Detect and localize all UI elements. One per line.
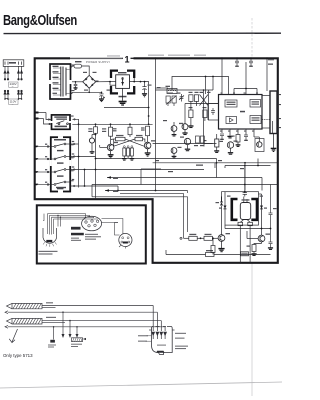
- switch S2 left terminal: [35, 158, 53, 160]
- SK1 label bar: [9, 62, 16, 64]
- transistor TR2: [144, 142, 151, 149]
- motor diode D9: [259, 194, 264, 229]
- wire to amp base: [105, 189, 188, 192]
- resistor R10: [203, 107, 208, 118]
- main schematic border: [35, 58, 278, 262]
- capacitor C8 top border: [235, 58, 239, 66]
- TR5 emitter ground: [218, 241, 224, 251]
- motor coil M1: [240, 197, 250, 220]
- nested feedback wires: [92, 191, 188, 239]
- switch S3 right wire long: [70, 169, 204, 171]
- U2 pin stubs bottom: [222, 129, 254, 137]
- regulator inner box: [116, 72, 130, 88]
- label 240V: [9, 82, 18, 89]
- U2 block OSC: [225, 100, 237, 107]
- U2 block AMP: [250, 100, 261, 108]
- U2 left pin wires: [208, 104, 219, 121]
- motor outer wire: [225, 192, 271, 229]
- junction dots supply: [103, 81, 149, 109]
- transistor TR6: [258, 235, 265, 242]
- cable 2 tip: [7, 318, 13, 323]
- ground U2 pin2: [227, 136, 232, 138]
- capacitor C13 right: [269, 185, 277, 229]
- label TR2: [151, 140, 156, 141]
- wire regulator input: [110, 82, 116, 86]
- resistor R17: [211, 237, 215, 254]
- faint heading above border: [148, 55, 206, 56]
- section marker 1: [113, 54, 140, 65]
- plug inner label: [157, 345, 166, 346]
- contact circle amp input: [180, 237, 182, 239]
- wires FM mid: [185, 101, 219, 124]
- switch S1 value label: [57, 150, 64, 151]
- switch S2 right wire to bus B: [70, 156, 95, 158]
- resistor R9: [189, 107, 194, 118]
- label tape bar 1: [71, 227, 81, 230]
- switch S2: [52, 156, 70, 160]
- connector P1: [270, 91, 277, 134]
- power switch box SW1: [52, 115, 71, 129]
- R1 value labels: [102, 128, 118, 192]
- wire R1 to TR1: [110, 136, 112, 144]
- earth drop wires: [53, 311, 78, 339]
- coupling capacitor C5: [89, 135, 95, 154]
- cross wires FM mixer: [200, 77, 214, 106]
- capacitor C9 top border: [249, 58, 253, 66]
- motor bottom wires: [240, 226, 250, 263]
- DIN plug rear view: [119, 233, 132, 246]
- resistor R14 on bus B: [94, 127, 98, 134]
- label TR5: [226, 233, 231, 234]
- wire regulator rail down: [148, 108, 150, 125]
- main switch box SW2: [51, 137, 70, 191]
- switch S3 value label: [57, 175, 64, 176]
- svg-text:Only type 5713: Only type 5713: [3, 353, 33, 358]
- capacitor C7: [211, 108, 215, 115]
- label TR3: [179, 123, 183, 124]
- U2 block POWER AMP: [250, 116, 261, 124]
- wire K7a: [153, 162, 278, 166]
- transistor TR3: [182, 124, 188, 130]
- bottom supply rail: [104, 107, 149, 109]
- plug labels left: [138, 335, 152, 342]
- capacitor C10 below U2: [220, 134, 224, 139]
- transformer T1: [50, 64, 71, 99]
- label TR1: [114, 142, 119, 143]
- mains voltage selector block SK1: [3, 60, 24, 67]
- transistor TR4 below U2: [254, 137, 264, 152]
- switch terminal markers: [35, 146, 38, 186]
- switch S3 pin number: [45, 169, 47, 170]
- wire signal left arrow: [107, 176, 262, 179]
- bridge rectifier D1-D4: [83, 75, 96, 88]
- resistor R3 cross-coupling: [116, 135, 126, 141]
- regulator label MC1: [119, 96, 127, 98]
- TR1 emitter ground: [108, 151, 114, 158]
- wire power switch to top rail: [72, 119, 152, 125]
- switch S2 value label: [57, 162, 64, 163]
- IF boxes: [196, 136, 205, 143]
- switch S3 left terminal: [35, 171, 53, 173]
- R14 labels: [88, 128, 92, 132]
- scan edge artifact bottom: [0, 382, 282, 388]
- drop arrowheads: [62, 334, 79, 338]
- solder tag: [48, 340, 56, 348]
- wire FM rail mid: [156, 89, 214, 143]
- label U2: [240, 111, 245, 113]
- faint stamp text: [107, 55, 120, 56]
- vertical bus A: [78, 124, 80, 187]
- tape bar caption: [71, 238, 81, 241]
- U2 block D: [226, 117, 237, 124]
- switch S2 pin number: [45, 156, 47, 157]
- wires power switch left: [39, 113, 52, 125]
- wire left channel signal: [42, 306, 153, 308]
- wire drops right: [215, 162, 262, 191]
- vertical bus A2: [84, 169, 86, 187]
- resistor R12: [214, 134, 219, 152]
- transistor TR2b: [171, 122, 177, 136]
- scan fold line bottom: [251, 263, 253, 396]
- switch S1 pin number: [45, 144, 47, 145]
- switch S4: [52, 181, 70, 185]
- wire lower long: [92, 185, 278, 197]
- label TR6: [266, 234, 271, 235]
- resistor R8: [194, 92, 198, 102]
- TR3 ground: [182, 130, 187, 135]
- pickup plug base bar: [157, 351, 165, 353]
- resistor R15: [184, 234, 198, 241]
- value label C3: [148, 85, 152, 86]
- TR6 wires: [247, 228, 262, 239]
- pickup caption front view: [39, 251, 58, 255]
- value labels bridge: [83, 72, 97, 91]
- border gaps styling: [50, 80, 71, 192]
- switch S1 right wire to bus A: [70, 143, 78, 145]
- plug pin arrows: [152, 306, 167, 340]
- switch S4 right wire: [70, 185, 119, 191]
- wire run 3: [42, 321, 161, 323]
- resistor R16: [197, 234, 218, 241]
- fuse F1: [73, 61, 82, 68]
- wire regulator output: [130, 78, 149, 108]
- motor cap C12: [243, 191, 247, 197]
- terminal arrows on left border: [34, 112, 39, 120]
- selector plug pins row 2: [4, 90, 23, 98]
- wire run 4: [5, 325, 165, 328]
- switch S4 left terminal: [35, 184, 53, 186]
- 5-pole plug caption: [85, 234, 101, 240]
- label shield 2: [46, 317, 56, 318]
- op-amp IC U2: [219, 95, 263, 130]
- wire run 2: [5, 311, 157, 314]
- wires around bridge: [71, 66, 111, 94]
- transistor TR3b: [184, 138, 190, 150]
- svg-text:1: 1: [125, 55, 130, 65]
- svg-text:~: ~: [12, 85, 14, 89]
- speaker cable shield 1: [12, 303, 42, 308]
- label D7: [216, 202, 220, 203]
- wire IF out: [204, 144, 213, 147]
- pickup socket pins: [48, 228, 54, 235]
- wire transformer secondary to fuse: [71, 66, 73, 94]
- resistor R4 cross-coupling: [135, 135, 143, 141]
- capacitor C14 right lower: [268, 228, 273, 250]
- svg-text:~: ~: [12, 102, 14, 106]
- switch S4 pin number: [45, 182, 47, 183]
- TR5 collector to motor: [222, 192, 226, 197]
- motor magnet left: [232, 199, 238, 220]
- vertical bus right section: [155, 58, 157, 144]
- capacitor C3 electrolytic: [142, 82, 147, 97]
- motor supply stubs: [244, 165, 246, 192]
- transistor TR2c: [171, 147, 181, 158]
- DIN plug wires: [102, 219, 126, 249]
- transistor TR5: [218, 235, 225, 242]
- cable 1 tip: [7, 303, 13, 308]
- pickup wiring harness: [43, 214, 98, 228]
- motor magnet right: [251, 199, 257, 220]
- trimmer capacitor C6: [179, 94, 184, 102]
- capacitor C2: [99, 92, 104, 102]
- tape connector hatched box: [71, 338, 86, 347]
- regulator ground: [119, 88, 127, 105]
- header rule: [4, 32, 282, 34]
- wire IC pin feeds: [222, 58, 257, 94]
- ground right of connector: [271, 134, 277, 152]
- label K7a: [204, 140, 207, 141]
- TR2 emitter ground: [145, 149, 151, 156]
- chassis ground arrow: [9, 329, 17, 343]
- switch S4 value label: [57, 188, 64, 189]
- coil L1: [167, 89, 177, 94]
- wire stub y169: [141, 169, 161, 185]
- junction dots top border: [221, 57, 252, 59]
- regulator IC1 outer bracket: [111, 71, 134, 94]
- wires U2 to connector: [262, 58, 270, 128]
- resistor R18 TR6 emitter: [251, 242, 261, 256]
- coil L2 boxes: [166, 93, 177, 107]
- top border thin segment: [70, 57, 123, 59]
- U2 pin numbers: [220, 93, 258, 132]
- resistor R21 bottom: [166, 250, 271, 257]
- logo Bang&Olufsen: [3, 11, 77, 28]
- label tape bar 2: [71, 233, 84, 236]
- svg-text:POWER SUPPLY: POWER SUPPLY: [86, 60, 110, 64]
- scan fold line top: [251, 18, 253, 57]
- wire bus K7 long: [95, 158, 217, 160]
- transformer winding taps: [53, 68, 70, 95]
- pickup arm socket: [43, 228, 57, 247]
- resistor R13 mid: [128, 123, 132, 137]
- plug labels right: [175, 333, 188, 349]
- svg-text:Bang&Olufsen: Bang&Olufsen: [3, 11, 77, 28]
- cross coupling wires: [111, 139, 145, 146]
- label 110V: [5, 99, 22, 107]
- capacitor C1: [74, 84, 78, 89]
- resistor R11 below U2: [231, 135, 240, 147]
- switch S1: [52, 143, 70, 147]
- resistor R7: [189, 92, 194, 102]
- transistor TR1: [107, 144, 114, 151]
- misc value labels: [71, 65, 281, 247]
- motor diode D8: [224, 206, 227, 209]
- junction dots extra: [155, 57, 268, 59]
- capacitor C11 below U2: [244, 135, 248, 140]
- wire bus B to TR1 base: [95, 134, 108, 148]
- transistor TR4b: [227, 142, 233, 154]
- selector row2 bottom dots: [4, 98, 22, 100]
- pickup plug body: [149, 327, 175, 355]
- label sig 1: [46, 302, 53, 303]
- transformer tap labels: [53, 66, 59, 94]
- motor brush contacts: [238, 220, 252, 226]
- ground R9: [188, 124, 193, 128]
- wire below IC horizontal: [225, 159, 271, 169]
- pickup detail box: [37, 205, 146, 263]
- vertical bus C: [110, 124, 112, 127]
- speaker cable shield 2: [12, 318, 42, 324]
- vertical drop x216: [216, 159, 218, 178]
- junction dots top rail: [78, 115, 150, 125]
- switch S1 left terminal: [35, 146, 53, 148]
- resistor trio R5 R6 R6b: [122, 146, 134, 160]
- small box bottom right: [241, 252, 249, 256]
- resistor R2: [141, 126, 150, 136]
- wire IF rail: [153, 143, 217, 145]
- selector plug pins row 1: [4, 66, 23, 80]
- 5-pole plug oval: [82, 216, 102, 231]
- junction dots FM: [205, 76, 214, 78]
- bus mid extension: [155, 144, 157, 191]
- diode D7: [220, 197, 223, 235]
- label C4 5n: [268, 59, 274, 65]
- wire FM top loop: [156, 77, 229, 95]
- label L1: [166, 86, 171, 87]
- switch S3: [52, 169, 70, 173]
- resistor R1: [109, 127, 117, 136]
- vertical bus B: [95, 124, 97, 199]
- wire R2 to TR2: [147, 136, 149, 143]
